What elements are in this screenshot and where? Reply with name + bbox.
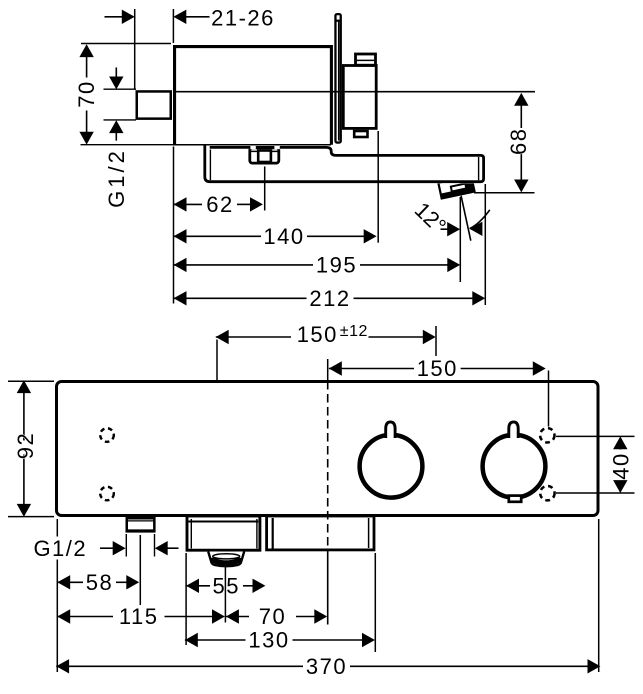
dim 370: [56, 654, 600, 679]
spout bar (side view): [205, 145, 484, 181]
fitting centre extension line: [264, 167, 266, 211]
dim 21-26: [105, 6, 275, 31]
knob 2 (front view): [483, 422, 546, 502]
svg-text:40: 40: [609, 452, 634, 479]
dim 55: [186, 573, 265, 598]
svg-text:150: 150: [297, 322, 338, 347]
dim 150+-12: [216, 322, 436, 347]
12 deg arrows and arc: [441, 210, 490, 237]
nipple centreline: [139, 535, 141, 605]
svg-text:70: 70: [74, 80, 99, 107]
dim 70 extension lines: [81, 44, 175, 145]
shower hose fitting under body: [250, 146, 280, 164]
G_TOPVIEW: [74, 6, 535, 311]
right screw hole bottom: [540, 486, 554, 500]
right body extension line: [598, 519, 600, 672]
shower holder bracket right part: [267, 516, 374, 550]
svg-text:G1/2: G1/2: [33, 536, 87, 561]
svg-text:70: 70: [259, 604, 286, 629]
dim 21-26 extension line right: [172, 9, 174, 43]
knob top ridge: [356, 54, 376, 65]
cone centreline: [224, 567, 226, 623]
dim 212 extension line: [484, 184, 486, 305]
knob 1 (front view): [360, 422, 423, 498]
dim 58: [57, 570, 139, 595]
svg-text:62: 62: [206, 192, 233, 217]
G_FRONTVIEW: [8, 322, 635, 679]
svg-text:115: 115: [119, 604, 159, 629]
dim 150: [329, 356, 546, 381]
svg-text:68: 68: [506, 128, 531, 155]
dim 21-26 extension line left: [134, 9, 136, 89]
svg-text:58: 58: [86, 570, 113, 595]
G1/2 outlet nipple (front view): [127, 518, 156, 531]
G1/2 thread arrows (top view): [104, 68, 137, 141]
dim 92 extension lines: [8, 381, 54, 516]
svg-text:G1/2: G1/2: [104, 148, 129, 208]
left screw hole bottom: [100, 487, 114, 501]
G1/2 label (top view, rotated): [104, 148, 129, 208]
dim 212: [174, 286, 486, 311]
svg-text:150: 150: [417, 356, 458, 381]
svg-text:140: 140: [263, 224, 304, 249]
12 deg label: [410, 197, 451, 238]
mixer body (front view): [57, 382, 599, 516]
svg-text:92: 92: [13, 432, 38, 459]
svg-text:12°: 12°: [410, 197, 451, 238]
svg-text:212: 212: [309, 286, 350, 311]
dim 40 extension lines: [556, 436, 635, 493]
dim 70 (front view): [226, 604, 327, 629]
right screw hole top: [540, 428, 554, 442]
dim 115: [57, 604, 225, 629]
svg-text:130: 130: [248, 628, 289, 653]
svg-text:21-26: 21-26: [211, 6, 275, 31]
svg-text:55: 55: [213, 573, 240, 598]
G1/2 inlet nipple (side view): [137, 91, 171, 118]
left extension line for dims 62/140/195/212: [173, 147, 175, 304]
dim 140 extension line: [377, 131, 379, 243]
dim 195: [174, 252, 461, 277]
svg-text:±12: ±12: [340, 323, 368, 340]
shower outlet cone: [208, 552, 244, 567]
dim 68: [506, 93, 531, 192]
G1/2 label (front view) with arrows: [33, 536, 178, 561]
mixer body (side view): [173, 47, 331, 145]
dim 130: [185, 628, 375, 653]
body mid parting line / centerline to 68 dim: [173, 91, 535, 93]
dim 92: [13, 380, 38, 517]
wall escutcheon plate: [335, 14, 341, 142]
shower holder bracket left part: [187, 516, 260, 550]
dim 68 extension line bottom: [474, 192, 535, 194]
dim 150+-12 extension lines: [217, 326, 436, 380]
dim 40: [609, 436, 634, 493]
svg-text:195: 195: [316, 252, 357, 277]
dim 62: [174, 192, 263, 217]
left body extension line: [56, 519, 58, 672]
dim 140: [174, 224, 377, 249]
12 deg slanted axis line: [461, 196, 471, 241]
control knob (side view): [343, 66, 376, 129]
dim 70: [74, 44, 99, 144]
dim 150 right extension line: [328, 359, 549, 427]
dim 130 extension lines: [186, 553, 375, 652]
spout outlet tip (12 deg): [438, 176, 474, 198]
dashed centreline: [327, 381, 329, 625]
knob bottom button: [354, 131, 367, 137]
G1/2 nipple edge extension lines: [126, 534, 154, 557]
svg-text:370: 370: [306, 654, 347, 679]
dim 195 extension line: [459, 197, 461, 282]
left screw hole top: [100, 428, 114, 442]
